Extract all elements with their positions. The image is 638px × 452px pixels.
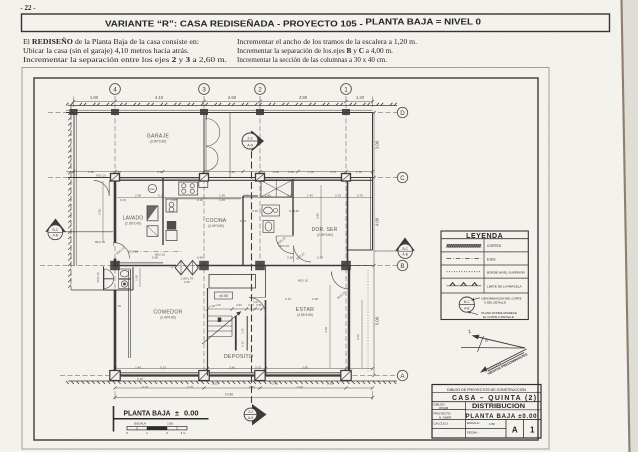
dim line above wall A <box>115 368 373 370</box>
parcel limit left <box>70 106 72 291</box>
axis line D (horizontal dashed) <box>48 112 397 114</box>
legend limite parcela symbol <box>447 285 482 287</box>
legend cortes symbol <box>447 244 482 248</box>
pass-through dim lines <box>171 267 173 269</box>
stair wall stub 1 <box>235 316 237 351</box>
north arrow <box>476 337 525 349</box>
wall cocina/bath <box>242 196 244 266</box>
bottom total dim line <box>115 397 373 399</box>
east wall step at B <box>349 265 373 267</box>
column C-346 <box>342 174 351 182</box>
wall lavado/cocina <box>162 178 164 246</box>
legend arrow lower <box>468 312 478 315</box>
interior dim line right <box>361 300 363 368</box>
bottom dimension line <box>115 387 373 389</box>
column on axis D at 115 <box>111 109 119 115</box>
wind arrow <box>484 349 527 371</box>
side yard fence <box>73 178 75 266</box>
axis line 2 <box>259 96 261 270</box>
wc walls <box>103 267 105 291</box>
column on axis D at 346 <box>342 109 350 115</box>
wall axis B <box>113 265 176 267</box>
axis bubble D <box>397 107 407 117</box>
kitchen sink <box>199 181 208 188</box>
wc sink <box>119 280 131 289</box>
garage door arc lower <box>206 147 218 171</box>
scan noise overlay <box>0 0 1 1</box>
legend box <box>441 231 528 320</box>
dorm vertical dim <box>320 185 322 258</box>
wall bath/dormitorio <box>292 179 294 236</box>
parcel limit top <box>68 105 397 107</box>
stair newel post <box>218 318 222 322</box>
garage court divider <box>229 113 231 178</box>
column B-260 <box>255 261 265 270</box>
east yard step wall <box>348 249 373 251</box>
wall deposito/estar <box>265 300 267 376</box>
window lines on wall C <box>120 178 200 180</box>
axis line 4 (vertical dashed) <box>114 96 116 381</box>
horizon line <box>461 347 525 350</box>
axis bubble 1 <box>341 84 352 95</box>
sheet letter A <box>523 419 525 438</box>
column C-260 <box>256 174 265 182</box>
level label box <box>215 292 233 299</box>
east wall upper (x=372.5) <box>372 113 374 251</box>
wc dim line <box>139 268 141 287</box>
kitchen counter <box>165 198 241 200</box>
axis bubble A <box>397 370 407 380</box>
bath north wall <box>243 195 258 197</box>
axis bubble 2 <box>255 84 266 95</box>
stove <box>179 182 198 195</box>
east wall dorm (x=346.5) <box>347 180 349 263</box>
west door arc <box>114 243 130 259</box>
wc corner basin arcs <box>104 269 114 279</box>
legend borde nivel symbol <box>447 271 482 273</box>
water heater CAL <box>148 184 156 192</box>
estar north doorway wall <box>265 266 267 298</box>
bar counter <box>209 275 256 289</box>
legend ejes symbol <box>447 258 482 260</box>
dotted border nivel superior <box>367 270 369 372</box>
comedor-estar door arc <box>249 298 266 315</box>
bath door arc <box>276 236 294 254</box>
outer sheet frame <box>22 68 549 450</box>
title block left column <box>465 402 467 438</box>
page right edge shadow <box>621 0 638 452</box>
east wall lower (x=349) <box>348 266 350 376</box>
estar door arc <box>332 272 350 290</box>
crossing tick <box>478 336 484 352</box>
bath toilet <box>263 221 274 233</box>
axis line C <box>48 177 397 179</box>
escala cell <box>466 428 507 430</box>
fridge unit <box>166 199 177 212</box>
axis line 1 <box>345 96 347 381</box>
stair treads <box>208 315 233 317</box>
axis line A <box>60 375 397 377</box>
column A-204 <box>199 371 209 381</box>
column on axis D at 73.5 <box>70 109 78 115</box>
wc toilet <box>119 269 131 279</box>
garage east wall axis 3 <box>203 113 205 178</box>
section marker bottom (2-2/A-9) <box>252 404 267 426</box>
pass-through diamond 1 <box>175 261 187 275</box>
bath sink <box>262 205 280 216</box>
north wall axis C <box>68 177 373 179</box>
legend arrow upper <box>472 298 480 300</box>
axis bubble 4 <box>110 84 121 95</box>
pass-through diamond 2 <box>187 261 199 275</box>
axis line 3 <box>203 96 205 381</box>
legend detail circle <box>459 297 474 312</box>
west window double line <box>128 270 130 358</box>
stair wall stub 2 <box>246 316 248 351</box>
dim line above wall C <box>66 171 373 173</box>
column on axis D at 204 <box>200 109 208 115</box>
axis bubble 3 <box>199 84 210 95</box>
column C-204 <box>200 174 209 182</box>
column A-260 <box>255 371 265 381</box>
parcel corner line <box>71 289 115 291</box>
column A-115 <box>110 371 120 381</box>
wc axis dash-dot <box>134 251 184 253</box>
fence wall axis D <box>66 112 373 114</box>
column B-346 <box>341 261 351 270</box>
title bar <box>22 14 610 32</box>
door arc dormitorio <box>294 246 312 263</box>
west wall mid <box>114 259 117 268</box>
entrance door arc <box>94 181 110 196</box>
column A-346 <box>341 371 351 381</box>
parcel limit bottom <box>68 380 397 382</box>
detail marker right (B-C / A-B) <box>395 238 415 251</box>
west wall upper <box>114 178 117 243</box>
dim line below wall C <box>117 197 373 199</box>
title block box <box>432 385 541 439</box>
lavado washer 1 <box>147 206 158 221</box>
garage door arc upper <box>206 119 220 147</box>
south wall axis A <box>113 374 351 376</box>
column B-204 <box>199 261 209 270</box>
detail marker left (B-C / A-B) <box>45 219 65 232</box>
pantry black unit <box>167 221 176 230</box>
section marker top (2-2/A-9) <box>252 131 265 152</box>
column B-115 <box>110 261 120 270</box>
bath shower <box>261 181 292 198</box>
west wall lower <box>114 290 117 377</box>
column on axis D at 260 <box>256 109 264 115</box>
plan title bar <box>113 406 115 432</box>
axis line B <box>40 265 397 267</box>
top dimension line <box>74 101 373 103</box>
section line 2-2 <box>251 131 253 403</box>
inner sheet frame <box>34 78 538 440</box>
wall comedor/deposito <box>207 288 209 376</box>
porch dim line <box>102 181 104 242</box>
garage west wall <box>73 113 75 178</box>
axis bubble B <box>397 260 407 270</box>
stair arrow <box>202 312 241 345</box>
scale bar <box>127 427 187 430</box>
interior dim line estar <box>329 285 331 368</box>
stair dim line <box>208 308 263 310</box>
axis bubble C <box>397 172 407 182</box>
right dimension line <box>373 113 375 376</box>
lavado washer 2 <box>147 226 158 237</box>
column C-115 <box>111 174 120 182</box>
